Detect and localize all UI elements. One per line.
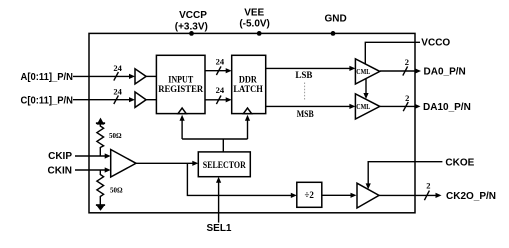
svg-text:24: 24 [113, 87, 122, 97]
svg-text:(+3.3V): (+3.3V) [175, 21, 208, 32]
svg-text:MSB: MSB [297, 109, 314, 119]
svg-text:50Ω: 50Ω [110, 187, 123, 195]
svg-text:÷2: ÷2 [304, 190, 314, 200]
svg-text:CKIN: CKIN [48, 165, 72, 176]
svg-text:REGISTER: REGISTER [158, 84, 203, 94]
svg-text:DDR: DDR [239, 75, 257, 85]
svg-text:LSB: LSB [295, 70, 312, 80]
svg-text:CML: CML [356, 103, 370, 111]
svg-text:CKIP: CKIP [48, 151, 72, 162]
svg-text:VEE: VEE [244, 7, 264, 18]
svg-text:2: 2 [405, 57, 409, 67]
svg-text:24: 24 [113, 63, 122, 73]
svg-text:(-5.0V): (-5.0V) [239, 19, 270, 30]
svg-text:2: 2 [426, 180, 430, 190]
svg-text:24: 24 [216, 85, 225, 95]
svg-text:VCCO: VCCO [421, 38, 450, 49]
svg-text:A[0:11]_P/N: A[0:11]_P/N [21, 72, 74, 83]
svg-text:GND: GND [324, 14, 346, 25]
svg-text:2: 2 [405, 93, 409, 103]
svg-text:DA10_P/N: DA10_P/N [423, 102, 471, 113]
svg-text:INPUT: INPUT [168, 75, 193, 85]
svg-text:LATCH: LATCH [233, 84, 263, 94]
svg-text:SELECTOR: SELECTOR [203, 160, 246, 170]
svg-text:VCCP: VCCP [179, 10, 207, 21]
svg-text:SEL1: SEL1 [206, 223, 231, 234]
svg-text:24: 24 [216, 57, 225, 67]
svg-text:CML: CML [356, 68, 370, 76]
svg-text:C[0:11]_P/N: C[0:11]_P/N [21, 95, 74, 106]
svg-text:DA0_P/N: DA0_P/N [424, 67, 466, 78]
svg-text:50Ω: 50Ω [109, 132, 122, 140]
svg-text:CKOE: CKOE [445, 157, 474, 168]
svg-text:CK2O_P/N: CK2O_P/N [446, 191, 496, 202]
